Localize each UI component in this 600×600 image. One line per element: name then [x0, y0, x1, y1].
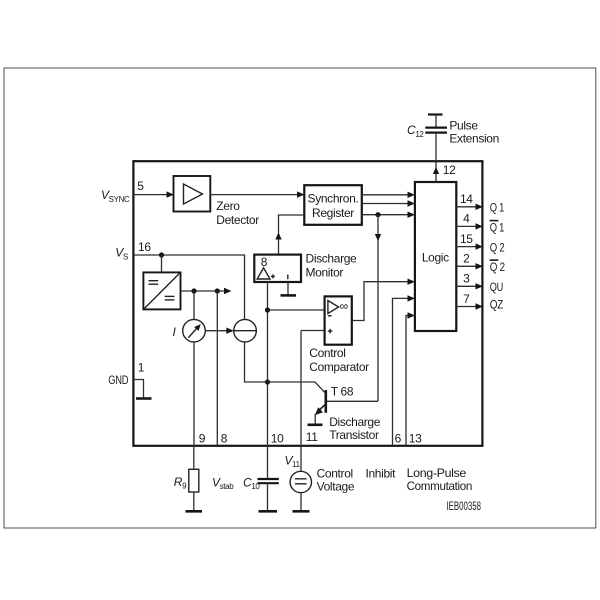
svg-text:8: 8 — [221, 431, 228, 445]
svg-text:Q 2: Q 2 — [490, 260, 506, 274]
synchron register U2 box — [304, 185, 362, 225]
svg-text:Control: Control — [309, 346, 345, 360]
svg-text:Discharge: Discharge — [306, 252, 358, 266]
zero detector U1 box — [174, 176, 211, 212]
svg-text:Q 2: Q 2 — [490, 240, 505, 254]
wire pin 8 (Vstab) — [216, 291, 218, 445]
wire current source to mirror — [205, 328, 234, 334]
svg-text:QZ: QZ — [490, 298, 503, 312]
svg-text:Logic: Logic — [422, 251, 449, 265]
label Long-Pulse Commutation — [407, 466, 472, 493]
voltage regulator U4 box — [143, 272, 180, 309]
svg-text:Long-Pulse: Long-Pulse — [407, 466, 467, 480]
svg-text:Monitor: Monitor — [306, 266, 344, 280]
discharge monitor U3 box — [254, 255, 301, 282]
svg-text:16: 16 — [138, 240, 151, 254]
svg-text:12: 12 — [443, 163, 456, 177]
svg-text:Zero: Zero — [216, 199, 240, 213]
ground under R9 — [186, 510, 203, 513]
capacitor C10 — [258, 445, 279, 510]
label Discharge Monitor — [306, 252, 358, 280]
svg-text:T 68: T 68 — [331, 385, 354, 399]
wire zero detector to register — [210, 191, 304, 197]
svg-text:13: 13 — [409, 431, 422, 445]
svg-text:GND: GND — [108, 373, 129, 387]
svg-text:5: 5 — [137, 179, 144, 193]
svg-text:Voltage: Voltage — [317, 480, 355, 494]
wire pin 12 pulse extension — [433, 134, 439, 182]
wire mirror to C10 node — [245, 342, 268, 382]
wire output QU — [456, 283, 483, 289]
svg-text:14: 14 — [460, 192, 473, 206]
wire pin 9 — [193, 342, 195, 445]
ground under C10 — [259, 510, 278, 513]
svg-text:Extension: Extension — [449, 132, 499, 146]
label Control Comparator — [309, 346, 369, 374]
control comparator U5 box — [325, 296, 352, 344]
resistor R9 — [189, 445, 199, 510]
wire pin 13 to logic — [406, 312, 415, 445]
wire register output 1 — [362, 192, 415, 198]
svg-text:10: 10 — [271, 431, 284, 445]
node Q2bar label — [490, 260, 506, 274]
svg-text:Control: Control — [317, 467, 353, 481]
svg-text:Comparator: Comparator — [309, 360, 369, 374]
svg-text:3: 3 — [463, 272, 470, 286]
svg-text:∞: ∞ — [340, 299, 348, 313]
svg-text:11: 11 — [306, 430, 318, 444]
wire register output 3 — [362, 212, 415, 218]
wire VSYNC input — [134, 191, 175, 197]
ground pin 1 symbol — [134, 380, 152, 399]
svg-text:IEB00358: IEB00358 — [447, 499, 482, 513]
junction VS to regulator — [159, 252, 164, 257]
logic block U6 — [415, 182, 456, 331]
wire T68 base — [268, 382, 325, 392]
wire VS to regulator — [161, 255, 163, 272]
svg-text:Commutation: Commutation — [407, 479, 472, 493]
label Pulse Extension — [449, 118, 499, 145]
svg-text:1: 1 — [138, 361, 145, 375]
wire comparator inverting input — [268, 309, 325, 311]
wire output QZ — [456, 303, 483, 309]
wire regulator internal supply — [181, 288, 232, 294]
wire pin 6 to logic — [393, 295, 416, 445]
wire discharge monitor to register — [275, 215, 304, 255]
wire T68 collector horizontal — [327, 400, 378, 402]
label Zero Detector — [216, 199, 259, 227]
wire pin 10 vertical — [267, 282, 269, 445]
svg-text:QU: QU — [490, 280, 503, 294]
current source I — [183, 319, 206, 342]
wire VS rail — [134, 255, 245, 319]
wire output Q1 — [456, 204, 483, 210]
junction register output 3 — [375, 212, 380, 217]
junction C10 node upper — [265, 307, 270, 312]
wire supply to current source — [193, 291, 195, 319]
junction supply to current source — [191, 288, 196, 293]
wire output Q2 — [456, 243, 483, 249]
svg-text:Synchron.: Synchron. — [308, 192, 359, 206]
wire output Q1bar — [456, 223, 483, 229]
voltage source V11 — [290, 445, 311, 510]
svg-text:Register: Register — [312, 206, 354, 220]
svg-text:Detector: Detector — [216, 213, 259, 227]
label Discharge Transistor — [329, 415, 381, 442]
wire comparator output to logic — [352, 279, 415, 321]
junction supply to pin 8 — [215, 288, 220, 293]
svg-text:9: 9 — [199, 431, 206, 445]
wire register to T68 collector (vertical) — [375, 215, 381, 402]
svg-text:Inhibit: Inhibit — [366, 467, 397, 481]
capacitor C12 — [425, 115, 447, 133]
current mirror circle — [234, 319, 257, 342]
wire output Q2bar — [456, 263, 483, 269]
IC package boundary — [133, 161, 482, 446]
svg-text:Pulse: Pulse — [449, 118, 478, 132]
junction C10 node lower — [265, 379, 270, 384]
ground under discharge monitor — [281, 282, 297, 295]
svg-text:Q 1: Q 1 — [490, 220, 505, 234]
wire comparator non-inverting input — [301, 330, 325, 332]
transistor T68 — [315, 390, 327, 415]
svg-text:Transistor: Transistor — [329, 428, 379, 442]
node Q1bar label — [490, 220, 505, 234]
label Control Voltage — [317, 467, 355, 494]
wire register output 2 — [362, 200, 415, 206]
svg-text:Q 1: Q 1 — [490, 201, 505, 215]
svg-text:7: 7 — [463, 292, 470, 306]
svg-text:2: 2 — [463, 252, 470, 266]
svg-text:Discharge: Discharge — [329, 415, 381, 429]
ground under V11 — [293, 510, 310, 513]
node VSYNC label — [101, 188, 130, 204]
svg-text:8: 8 — [261, 255, 268, 269]
wire pin 11 vertical — [300, 331, 302, 446]
svg-text:15: 15 — [460, 232, 473, 246]
svg-text:6: 6 — [395, 431, 402, 445]
svg-text:4: 4 — [463, 212, 470, 226]
ground under T68 emitter — [308, 414, 323, 425]
